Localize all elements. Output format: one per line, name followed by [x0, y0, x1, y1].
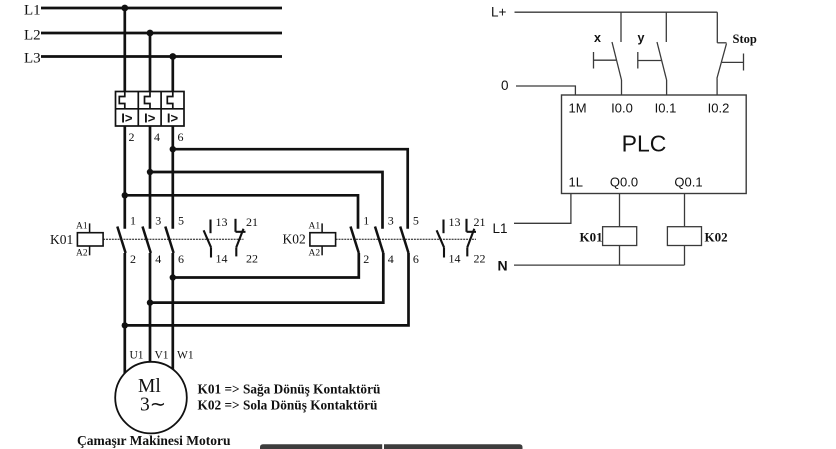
K02 coil terminal A2 stub: [321, 246, 323, 255]
breaker pole 1 thermal release symbol: [119, 92, 125, 109]
relay coil K01: [603, 227, 637, 246]
svg-text:22: 22: [246, 252, 258, 266]
svg-text:1: 1: [130, 214, 136, 228]
svg-text:Q0.1: Q0.1: [674, 175, 702, 190]
K02 main contact 1-2: [351, 227, 359, 254]
svg-text:14: 14: [216, 252, 228, 266]
wire phase2 feed to K02 contact 3: [150, 172, 383, 229]
pushbutton Stop NC contact: [717, 44, 727, 79]
K01 coil box: [77, 233, 103, 246]
svg-text:2: 2: [129, 130, 135, 144]
node junction W phase return: [170, 274, 176, 280]
wire L1 bus: [41, 7, 282, 10]
svg-text:1: 1: [363, 214, 369, 228]
svg-text:13: 13: [449, 215, 461, 229]
wire K02 contact4 return to phase V: [150, 253, 383, 303]
svg-text:21: 21: [246, 215, 258, 229]
svg-text:K01: K01: [50, 232, 73, 247]
wire L3 bus: [41, 55, 282, 58]
node L3 tap junction: [169, 53, 176, 60]
K01 aux NO contact 13-14: [204, 220, 211, 258]
svg-text:I0.1: I0.1: [655, 101, 677, 116]
K01 mechanical link line: [103, 238, 243, 240]
svg-text:A2: A2: [76, 249, 88, 259]
svg-text:4: 4: [155, 252, 161, 266]
pushbutton x NO contact: [612, 42, 622, 80]
wire y button upper terminal: [665, 12, 667, 42]
svg-text:K02: K02: [283, 232, 306, 247]
svg-text:13: 13: [216, 215, 228, 229]
svg-text:x: x: [594, 31, 601, 45]
wire breaker pole3 output down to K01 contact 5: [171, 126, 174, 229]
svg-text:2: 2: [363, 252, 369, 266]
K02 mechanical link line: [336, 238, 476, 240]
wire K01 contact2 down to motor U1: [123, 253, 126, 374]
node junction phase3 to K02 feed: [170, 146, 176, 152]
node junction phase1 to K02 feed: [122, 192, 128, 198]
PLC box U1: [562, 95, 747, 194]
K01 main contact 1-2: [117, 227, 125, 254]
wire y button to PLC I0.1: [666, 80, 668, 95]
svg-text:3: 3: [388, 214, 394, 228]
pushbutton y actuator: [638, 52, 662, 69]
circuit breaker Q1 outline: [116, 92, 185, 127]
wire phase3 feed to K02 contact 5: [173, 149, 408, 229]
wire N bus: [514, 264, 685, 266]
svg-text:K02 => Sola Dönüş Kontaktörü: K02 => Sola Dönüş Kontaktörü: [198, 398, 379, 413]
wire K02 contact2 return to phase W: [173, 253, 359, 278]
svg-text:3∼: 3∼: [140, 395, 166, 416]
wire phase1 feed to K02 contact 1: [125, 195, 358, 228]
wire x button upper terminal: [620, 12, 622, 42]
wire K01 coil to N: [619, 246, 621, 266]
svg-text:I0.2: I0.2: [708, 101, 730, 116]
svg-text:4: 4: [388, 252, 394, 266]
wire K02 contact6 return to phase U: [125, 253, 409, 325]
svg-text:V1: V1: [155, 350, 169, 362]
svg-text:2: 2: [130, 252, 136, 266]
K02 main contact 3-4: [375, 227, 383, 254]
node junction U phase return: [122, 322, 128, 328]
svg-text:5: 5: [178, 214, 184, 228]
wire PLC Q0.0 to K01 coil: [619, 194, 621, 227]
wire breaker pole2 output down to K01 contact 3: [149, 126, 152, 229]
pushbutton y NO contact: [657, 42, 667, 80]
wire L2 drop to breaker: [149, 33, 152, 92]
wire Stop button to PLC I0.2: [716, 79, 718, 96]
K02 coil terminal A1 stub: [321, 223, 323, 232]
breaker pole 2 thermal release symbol: [145, 92, 151, 109]
svg-text:U1: U1: [130, 350, 144, 362]
relay coil K02: [667, 227, 701, 246]
wire K01 contact6 down to motor W1: [171, 253, 174, 372]
taskbar fragment left: [260, 444, 382, 449]
wire K01 contact4 down to motor V1: [149, 253, 152, 364]
K01 main contact 5-6: [165, 227, 173, 254]
svg-text:L+: L+: [491, 5, 507, 20]
svg-text:I>: I>: [167, 111, 179, 126]
wire K02 coil to N: [684, 246, 686, 266]
svg-text:21: 21: [474, 215, 486, 229]
svg-text:Çamaşır Makinesi Motoru: Çamaşır Makinesi Motoru: [77, 433, 231, 448]
svg-text:0: 0: [501, 78, 509, 93]
wire L3 drop to breaker: [171, 57, 174, 92]
motor M1 circle: [115, 362, 187, 434]
wire L+ bus: [515, 11, 718, 13]
wire breaker pole1 output down to K01 contact 1: [123, 126, 126, 229]
svg-text:4: 4: [154, 130, 160, 144]
K01 coil terminal A2 stub: [89, 246, 91, 255]
svg-text:L2: L2: [24, 28, 41, 44]
svg-text:L1: L1: [493, 221, 508, 236]
svg-text:6: 6: [178, 130, 184, 144]
K02 aux NC contact 21-22: [467, 219, 477, 257]
svg-text:W1: W1: [177, 350, 194, 362]
svg-text:I>: I>: [121, 111, 133, 126]
breaker pole 3 thermal release symbol: [167, 92, 173, 109]
pushbutton Stop NC bar: [717, 42, 726, 44]
svg-text:6: 6: [178, 252, 184, 266]
svg-text:1M: 1M: [569, 101, 587, 116]
K01 main contact 3-4: [143, 227, 151, 254]
K02 coil box: [310, 233, 336, 246]
svg-text:22: 22: [474, 252, 486, 266]
svg-text:3: 3: [155, 214, 161, 228]
wire PLC Q0.1 to K02 coil: [684, 194, 686, 227]
svg-text:5: 5: [413, 214, 419, 228]
pushbutton x actuator: [594, 52, 617, 69]
svg-text:PLC: PLC: [622, 131, 667, 157]
node junction phase2 to K02 feed: [147, 169, 153, 175]
pushbutton Stop actuator: [722, 54, 744, 71]
svg-text:I0.0: I0.0: [611, 101, 633, 116]
svg-text:y: y: [638, 31, 645, 45]
svg-text:A1: A1: [309, 222, 321, 232]
svg-text:K02: K02: [705, 230, 728, 245]
node L1 tap junction: [121, 5, 128, 12]
K01 coil terminal A1 stub: [89, 223, 91, 232]
svg-text:I>: I>: [144, 111, 156, 126]
svg-text:14: 14: [449, 252, 461, 266]
svg-text:A2: A2: [309, 249, 321, 259]
wire 0 rail to PLC 1M: [516, 86, 575, 95]
svg-text:Q0.0: Q0.0: [610, 175, 638, 190]
svg-text:1L: 1L: [569, 175, 583, 190]
node L2 tap junction: [147, 30, 154, 37]
wire Stop button upper terminal: [716, 12, 718, 43]
node junction V phase return: [147, 299, 153, 305]
K01 aux NC contact 21-22: [236, 219, 246, 257]
svg-text:Stop: Stop: [733, 32, 757, 46]
wire PLC 1L to L1: [514, 194, 571, 224]
K02 aux NO contact 13-14: [437, 220, 444, 258]
wire L2 bus: [41, 32, 282, 35]
svg-text:K01: K01: [580, 230, 603, 245]
svg-text:K01 => Sağa Dönüş Kontaktörü: K01 => Sağa Dönüş Kontaktörü: [198, 382, 381, 397]
svg-text:N: N: [498, 258, 508, 274]
wire L1 drop to breaker: [123, 8, 126, 92]
svg-text:6: 6: [413, 252, 419, 266]
K02 main contact 5-6: [400, 227, 408, 254]
svg-text:L3: L3: [24, 51, 41, 67]
taskbar fragment right: [384, 444, 523, 449]
svg-text:L1: L1: [24, 3, 41, 19]
svg-text:A1: A1: [76, 222, 88, 232]
wire x button to PLC I0.0: [621, 80, 623, 95]
